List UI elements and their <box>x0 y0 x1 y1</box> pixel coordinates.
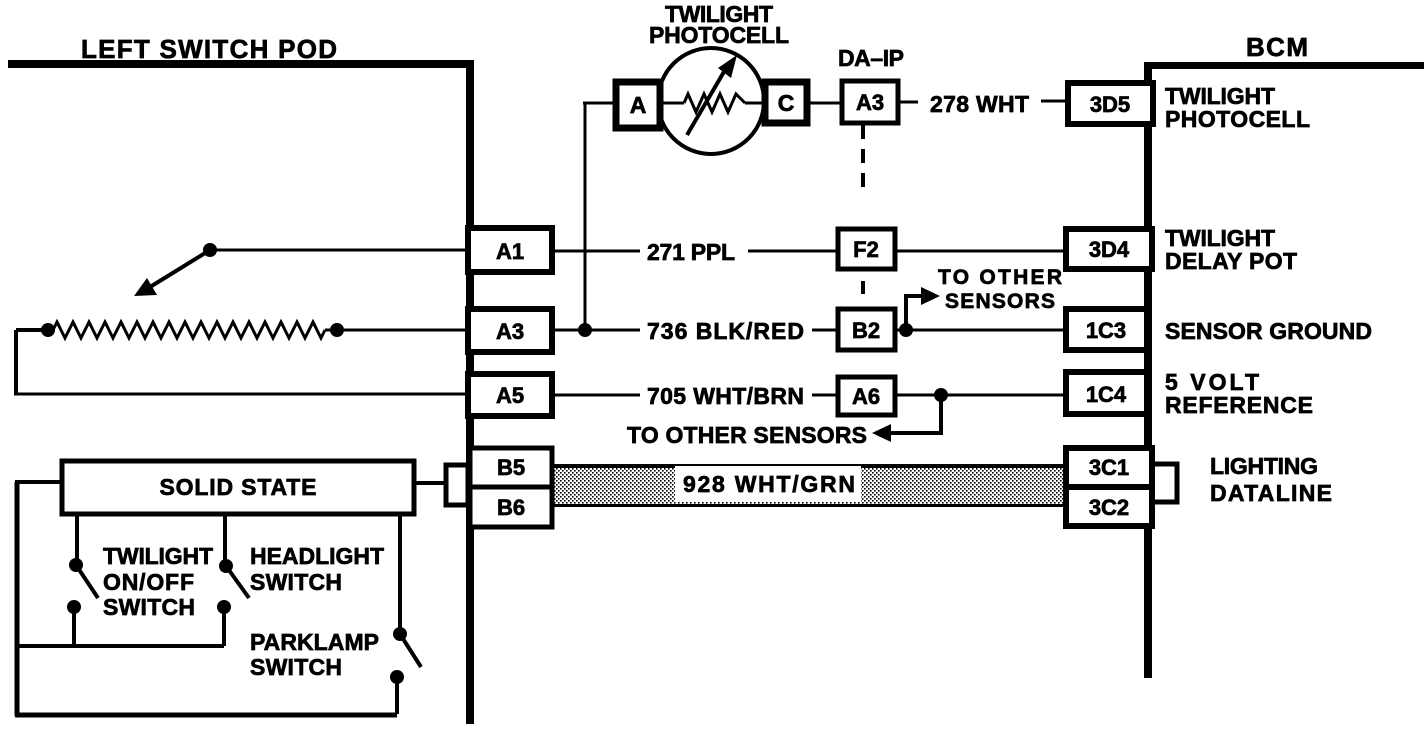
dashed DA-IP connector line F2 to B2 <box>861 281 865 294</box>
wire to BCM 3D5 <box>1041 100 1068 103</box>
svg-text:ON/OFF: ON/OFF <box>103 569 194 595</box>
parklamp switch top contact <box>393 627 407 641</box>
svg-text:BCM: BCM <box>1246 32 1308 62</box>
svg-text:PHOTOCELL: PHOTOCELL <box>649 22 789 48</box>
svg-text:SOLID STATE: SOLID STATE <box>160 474 317 500</box>
svg-text:DATALINE: DATALINE <box>1210 480 1332 506</box>
wire from node to pin A <box>583 102 616 105</box>
svg-text:3C1: 3C1 <box>1089 455 1129 480</box>
svg-text:1C4: 1C4 <box>1086 382 1127 407</box>
svg-text:SENSORS: SENSORS <box>945 290 1055 313</box>
wiper junction dot <box>203 243 217 257</box>
connector DA-IP pin A3 <box>842 81 898 123</box>
parklamp switch bottom contact <box>390 670 404 684</box>
connector BCM pin 3C1 <box>1066 448 1152 487</box>
svg-text:705 WHT/BRN: 705 WHT/BRN <box>647 383 804 409</box>
connector BCM pin 1C3 <box>1066 309 1147 350</box>
lighting dataline halftone bus 928 WHT/GRN <box>553 468 1066 504</box>
connector pod pin A1 <box>468 228 552 272</box>
svg-text:SWITCH: SWITCH <box>250 654 342 680</box>
wire pot left end to left rail <box>16 328 42 332</box>
pod inline connector box <box>446 465 468 505</box>
left rail vertical wire <box>14 330 18 394</box>
pin box A <box>616 82 660 128</box>
wire headlight switch to bus <box>222 607 226 646</box>
wire twilight delay pot wiper to A1 <box>210 249 466 252</box>
wiper arrow <box>150 250 210 287</box>
wire pot right end to A3 <box>344 329 466 332</box>
BCM top bar <box>1150 62 1424 69</box>
svg-text:A6: A6 <box>852 384 880 409</box>
svg-text:DELAY POT: DELAY POT <box>1165 248 1297 274</box>
svg-text:736 BLK/RED: 736 BLK/RED <box>647 318 804 344</box>
svg-text:A: A <box>630 92 647 118</box>
connector pod pin B6 <box>470 487 552 527</box>
BCM vertical boundary line <box>1144 62 1152 678</box>
wire A6 to 1C4 <box>895 394 1066 397</box>
svg-text:PARKLAMP: PARKLAMP <box>250 629 379 655</box>
label patch 928 WHT/GRN <box>675 466 861 502</box>
wire A3 right stub <box>898 101 918 104</box>
wire solid state drop 1 <box>75 514 79 559</box>
svg-text:A5: A5 <box>496 383 524 408</box>
svg-text:3D5: 3D5 <box>1090 92 1130 117</box>
left switch pod vertical boundary line <box>466 60 474 724</box>
wire label to A6 <box>812 394 838 397</box>
wire C to DA-IP A3 <box>807 102 842 105</box>
wire solid state drop 3 <box>398 514 402 628</box>
connector BCM pin 3D5 <box>1068 83 1153 124</box>
photocell variable arrow <box>687 70 725 135</box>
connector DA-IP pin F2 <box>838 229 895 269</box>
pot end junction dot left <box>41 323 55 337</box>
svg-text:SWITCH: SWITCH <box>103 594 195 620</box>
photocell circle <box>658 48 764 154</box>
svg-text:928 WHT/GRN: 928 WHT/GRN <box>683 471 855 497</box>
wire A5 to label <box>552 394 640 397</box>
svg-text:A3: A3 <box>856 90 884 115</box>
wire left rail to A5 <box>14 393 466 396</box>
junction dot 5v reference branch <box>934 388 948 402</box>
connector pod pin A3 <box>468 309 552 352</box>
wire twilight switch to bus <box>72 607 76 646</box>
pin box C <box>765 82 807 123</box>
svg-text:B2: B2 <box>852 318 880 343</box>
wire pin A to zigzag <box>660 102 684 105</box>
wire solid state to pod connector <box>414 481 446 485</box>
svg-text:SENSOR GROUND: SENSOR GROUND <box>1165 318 1372 344</box>
twilight switch bottom contact <box>67 600 81 614</box>
svg-text:TO OTHER: TO OTHER <box>938 266 1062 289</box>
left switch pod top bar <box>8 60 473 68</box>
bottom bus wire <box>15 713 397 718</box>
svg-text:LEFT SWITCH POD: LEFT SWITCH POD <box>81 34 337 64</box>
dashed DA-IP connector line A3 to F2 <box>861 125 865 192</box>
switch return bus wire <box>15 644 224 648</box>
svg-text:278 WHT: 278 WHT <box>930 91 1029 117</box>
svg-text:REFERENCE: REFERENCE <box>1165 392 1313 418</box>
svg-text:HEADLIGHT: HEADLIGHT <box>250 543 384 569</box>
svg-text:271 PPL: 271 PPL <box>647 239 735 265</box>
svg-text:C: C <box>778 90 795 116</box>
twilight delay pot resistor zigzag <box>53 322 340 338</box>
svg-text:A1: A1 <box>496 239 524 264</box>
junction dot to other sensors <box>899 323 913 337</box>
wire A1 to label <box>552 250 640 253</box>
wire F2 to 3D4 <box>895 250 1066 253</box>
wire left rail to solid state <box>15 480 62 484</box>
connector DA-IP pin B2 <box>838 309 895 350</box>
wire parklamp switch to bottom bus <box>395 677 399 714</box>
pot end junction dot right <box>330 323 344 337</box>
wire from photocell A down to sensor ground node <box>584 103 587 330</box>
photoresistor zigzag inside circle <box>684 94 745 112</box>
connector pod pin B5 <box>470 448 552 487</box>
left rail vertical (bottom circuit) <box>15 482 20 716</box>
wire label to B2 <box>812 329 838 332</box>
branch arrow to other sensors (down) <box>889 395 941 433</box>
svg-text:B5: B5 <box>497 455 525 480</box>
svg-text:PHOTOCELL: PHOTOCELL <box>1165 106 1310 132</box>
connector BCM pin 3D4 <box>1066 229 1152 269</box>
twilight switch top contact <box>69 558 83 572</box>
wire A3 to label <box>552 329 640 332</box>
svg-text:SWITCH: SWITCH <box>250 569 342 595</box>
connector BCM pin 1C4 <box>1066 372 1147 414</box>
wire label to F2 <box>748 250 838 253</box>
solid state module box <box>62 461 414 514</box>
svg-text:LIGHTING: LIGHTING <box>1210 453 1318 479</box>
BCM dataline loop bracket <box>1152 464 1177 502</box>
headlight switch bottom contact <box>217 600 231 614</box>
svg-text:F2: F2 <box>853 237 879 262</box>
wire B2 to 1C3 <box>895 329 1066 332</box>
svg-text:3C2: 3C2 <box>1089 495 1129 520</box>
svg-text:TWILIGHT: TWILIGHT <box>103 543 213 569</box>
connector DA-IP pin A6 <box>838 377 895 415</box>
headlight switch top contact <box>219 559 233 573</box>
svg-text:B6: B6 <box>497 495 525 520</box>
svg-text:1C3: 1C3 <box>1086 318 1126 343</box>
connector BCM pin 3C2 <box>1066 487 1152 526</box>
junction dot sensor ground node <box>578 323 592 337</box>
headlight switch blade <box>226 566 249 598</box>
wire solid state drop 2 <box>223 514 227 560</box>
branch arrow to other sensors (up) <box>906 296 925 330</box>
parklamp switch blade <box>400 634 421 667</box>
connector pod pin A5 <box>468 374 552 416</box>
svg-text:3D4: 3D4 <box>1089 237 1130 262</box>
svg-text:DA–IP: DA–IP <box>838 45 904 71</box>
wire zigzag to pin C <box>745 102 765 105</box>
svg-text:A3: A3 <box>496 319 524 344</box>
twilight switch blade <box>76 565 98 598</box>
svg-text:TO OTHER SENSORS: TO OTHER SENSORS <box>627 422 867 448</box>
